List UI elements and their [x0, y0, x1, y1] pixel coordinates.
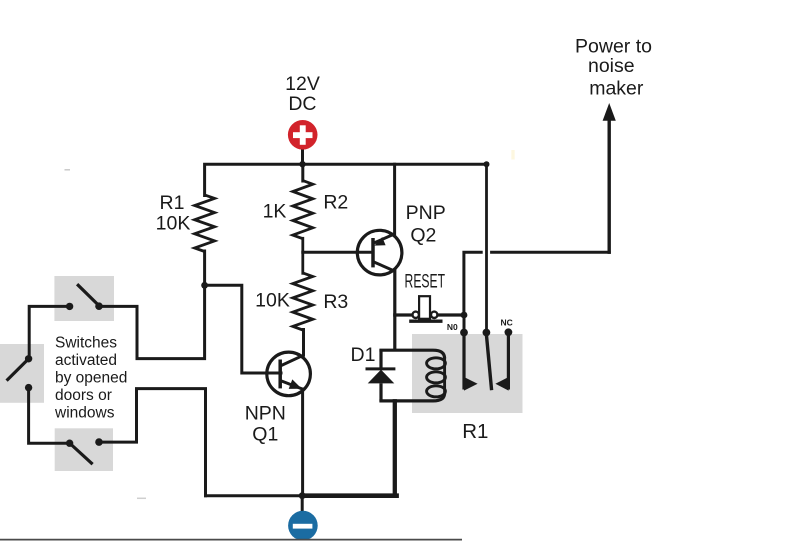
wire: noise maker horizontal (right of hop) — [492, 251, 610, 254]
pushbutton RESET — [409, 296, 442, 321]
bottom border line — [0, 539, 462, 541]
junction node ground rail — [299, 492, 306, 499]
wire: noise maker arrow shaft — [608, 117, 611, 252]
svg-text:Q2: Q2 — [410, 225, 436, 247]
wire: reset switch right lead — [438, 313, 464, 316]
relay armature terminal dot — [483, 329, 491, 337]
wire: middle switch bottom to bottom switch — [29, 388, 70, 444]
svg-text:by opened: by opened — [55, 370, 127, 387]
svg-text:maker: maker — [589, 77, 644, 99]
wire: relay armature feed (vertical from rail) — [485, 164, 488, 333]
wire: top power rail with R1 top lead — [205, 164, 487, 195]
wire: bottom switch right to ground rail — [99, 389, 206, 496]
relay armature contact — [486, 335, 491, 391]
wire: junction down and left to top switch — [99, 285, 205, 358]
junction node R1/switches/Q1 base — [201, 282, 208, 289]
label switches note — [54, 335, 127, 422]
diode D1 — [366, 350, 396, 402]
junction node rail corner — [484, 161, 490, 167]
junction node under + terminal — [299, 161, 305, 167]
wire: R1 bottom lead to junction — [203, 251, 206, 285]
wire: Q1 emitter to ground rail — [301, 389, 304, 496]
wire: junction to Q1 base — [205, 285, 281, 373]
svg-text:R1: R1 — [462, 420, 488, 443]
svg-text:Power to: Power to — [575, 35, 652, 57]
resistor R1 — [195, 195, 215, 252]
wire: reset junction to NO contact — [463, 315, 466, 333]
svg-text:NPN: NPN — [245, 403, 286, 425]
svg-text:NC: NC — [501, 318, 513, 328]
wire: Q2 collector down to relay coil — [393, 271, 396, 350]
svg-text:D1: D1 — [351, 344, 376, 366]
wire: Q2 emitter lead to rail — [393, 164, 396, 234]
svg-text:doors or: doors or — [55, 387, 112, 404]
wire: R2 bottom to R3 top — [301, 238, 304, 273]
wire: ground rail right part — [302, 493, 396, 498]
resistor R2 — [293, 181, 313, 239]
resistor R3 — [293, 273, 313, 330]
switch box S2 shading — [0, 344, 44, 403]
svg-text:N0: N0 — [447, 322, 458, 332]
svg-text:12V: 12V — [285, 73, 320, 95]
svg-text:1K: 1K — [263, 201, 287, 223]
artifact yellow dash — [511, 150, 514, 160]
svg-text:DC: DC — [288, 93, 316, 115]
wire: R2 top lead — [301, 164, 304, 181]
wire: top switch left to middle switch — [29, 306, 69, 358]
wire: + terminal lead — [301, 149, 304, 165]
svg-text:PNP: PNP — [406, 202, 446, 224]
artifact gray dash 2 — [137, 497, 146, 499]
wire: minus terminal lead — [301, 496, 304, 512]
- terminal — [288, 511, 318, 541]
svg-text:RESET: RESET — [405, 271, 446, 292]
svg-text:R3: R3 — [323, 291, 348, 313]
relay NC terminal dot — [505, 328, 513, 336]
switch S1 (top) — [66, 284, 103, 310]
svg-text:10K: 10K — [156, 213, 191, 235]
relay NC contact — [495, 333, 508, 391]
wire: R3 bottom to Q1 collector — [302, 330, 305, 356]
relay coil L1 — [379, 350, 445, 401]
noise maker arrowhead — [603, 103, 616, 121]
svg-text:R1: R1 — [160, 192, 185, 214]
switch box S3 shading — [55, 428, 113, 471]
wire: relay coil bottom to ground rail — [393, 401, 397, 495]
relay NO terminal dot — [460, 329, 468, 337]
svg-text:Switches: Switches — [55, 335, 117, 352]
wire: ground rail left part — [206, 494, 303, 497]
wire: reset switch left lead — [395, 313, 413, 316]
wire: reset junction up then right to arrow (left of hop) — [464, 252, 481, 315]
transistor Q2 PNP — [357, 230, 402, 275]
artifact gray dash 1 — [65, 169, 71, 171]
svg-text:Q1: Q1 — [252, 424, 278, 446]
relay R1 body shading — [412, 334, 523, 413]
svg-text:activated: activated — [55, 352, 117, 369]
+ terminal — [288, 120, 318, 150]
switch box S1 shading — [54, 276, 114, 321]
svg-text:noise: noise — [588, 55, 635, 77]
svg-text:windows: windows — [54, 405, 115, 422]
switch S3 (bottom) — [66, 438, 103, 464]
switch S2 (left) — [7, 355, 33, 391]
relay NO contact — [464, 333, 478, 391]
wire: Q2 base wire — [303, 251, 373, 254]
transistor Q1 NPN — [267, 352, 311, 396]
svg-text:R2: R2 — [323, 192, 348, 214]
svg-text:10K: 10K — [255, 290, 290, 312]
junction node reset/NO — [461, 312, 468, 319]
